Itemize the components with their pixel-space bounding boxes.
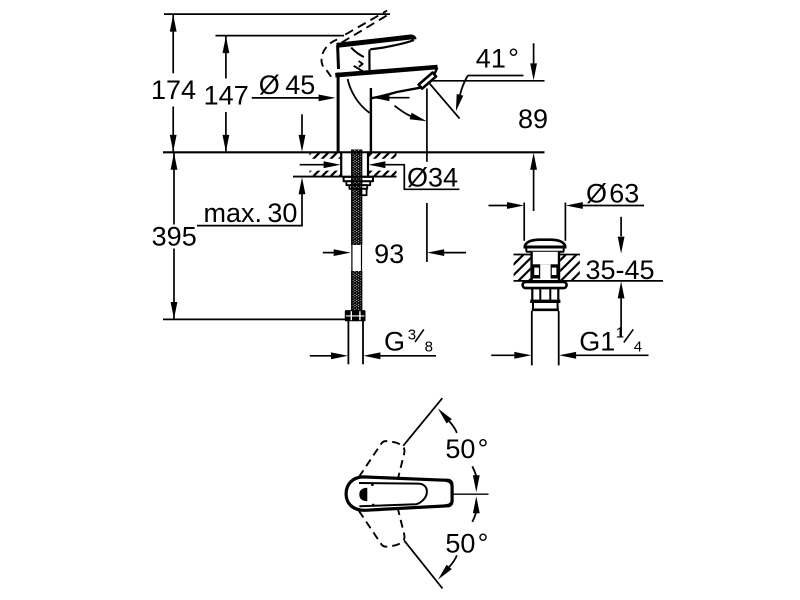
dim d45 left line xyxy=(252,97,320,99)
handle rotated down dashed xyxy=(359,509,405,546)
dim G38 right tail xyxy=(380,355,436,357)
lever top edge xyxy=(337,37,415,45)
41deg leader arc right xyxy=(460,76,468,96)
svg-text:89: 89 xyxy=(518,104,548,134)
dim d34 right arrow xyxy=(368,161,385,168)
threaded shank and hose upper segment xyxy=(351,150,353,246)
dim 147 top extension line xyxy=(216,35,345,37)
dim d63 ext line right xyxy=(564,203,566,241)
dim 93 left arrow xyxy=(334,249,351,256)
washer xyxy=(344,177,373,181)
dim d63 left line xyxy=(489,205,510,207)
dim d63 left arrow xyxy=(507,202,524,209)
dim 174 vertical line xyxy=(172,14,174,73)
dim 3545 upper line xyxy=(620,217,622,236)
spout underside xyxy=(371,88,421,99)
dim d63 right arrow xyxy=(566,202,583,209)
dim 174 arrow down xyxy=(170,135,177,152)
dim d34 right tail and leader xyxy=(385,165,459,190)
dim 93 left line xyxy=(323,252,335,254)
waste dome cap xyxy=(525,240,565,247)
handle paddle top view xyxy=(346,477,452,510)
89 reference line at aerator level xyxy=(432,80,545,82)
dim d45 left arrow xyxy=(319,95,336,102)
drain counter bottom line xyxy=(514,280,664,282)
dim 395 arrow down xyxy=(171,302,178,319)
dim 147 arrow down xyxy=(223,135,230,152)
G38 connector cylinder xyxy=(347,320,349,364)
handle logo crescent xyxy=(360,488,367,501)
svg-text:395: 395 xyxy=(152,222,197,252)
drain counter top line xyxy=(514,254,532,256)
waste tailpipe xyxy=(531,311,533,365)
dim d45 right tail xyxy=(389,97,410,99)
handle rotated up dashed xyxy=(359,441,405,478)
lever back edge xyxy=(336,45,340,69)
raised lever dashed back xyxy=(321,40,337,80)
dim G114 right arrow xyxy=(559,352,576,359)
svg-text:41 °: 41 ° xyxy=(476,43,519,73)
dim max30 arrow down at deck top xyxy=(301,114,303,135)
dim G38 left line xyxy=(310,355,333,357)
upper 50 arc to diagonal xyxy=(438,409,452,424)
svg-text:174: 174 xyxy=(151,75,196,105)
dim d34 left line xyxy=(300,164,325,166)
waste flange xyxy=(523,282,567,288)
mounting sleeve xyxy=(341,153,368,175)
dim 395 arrow up xyxy=(171,153,178,170)
cartridge dome upper curve xyxy=(351,48,364,57)
raised lever dashed chevron xyxy=(359,61,363,67)
svg-text:Ø 45: Ø 45 xyxy=(259,70,315,100)
dim 89 lower line xyxy=(533,170,535,212)
spout nose edge xyxy=(434,68,437,76)
handle dot upper xyxy=(371,483,374,486)
dim 174 arrow up xyxy=(170,15,177,32)
dim 395 vertical line xyxy=(173,153,175,225)
dim 89 arrow down xyxy=(530,63,537,80)
dim G114 right tail xyxy=(576,354,649,356)
svg-text:50 °: 50 ° xyxy=(445,434,488,464)
waste nut xyxy=(531,288,533,300)
dim 93 right arrow xyxy=(427,249,444,256)
spout top edge xyxy=(335,67,437,75)
step 2 xyxy=(349,185,367,189)
waste lip xyxy=(532,303,534,309)
svg-text:147: 147 xyxy=(204,81,249,111)
svg-text:35-45: 35-45 xyxy=(586,255,655,285)
dim 93 right tail xyxy=(444,252,466,254)
waste window xyxy=(532,264,559,278)
svg-text:93: 93 xyxy=(374,239,404,269)
faucet body right edge xyxy=(370,88,372,152)
lower 50 arc to diagonal xyxy=(438,565,452,580)
step 1 xyxy=(346,181,370,185)
dim 89 arrow up xyxy=(530,153,537,170)
hose break gap edges xyxy=(351,245,353,271)
handle paddle inner contour xyxy=(359,483,427,506)
handle dot lower xyxy=(372,504,375,507)
41deg diagonal from aerator xyxy=(428,82,460,119)
faucet body left edge xyxy=(337,73,340,153)
waste cap band xyxy=(525,247,527,252)
dim d34 left arrow xyxy=(324,161,341,168)
dim G38 left arrow xyxy=(331,352,348,359)
upper 50 arc to centerline xyxy=(472,466,476,476)
hose end reference line xyxy=(163,318,365,320)
handle axis centerline xyxy=(423,493,489,495)
dim d63 ext line left xyxy=(523,203,525,241)
lever neck front xyxy=(368,50,371,72)
hose end fitting xyxy=(346,311,365,320)
lower 50 arc to centerline xyxy=(472,512,476,522)
svg-text:8: 8 xyxy=(425,339,433,356)
aerator extension vertical xyxy=(426,89,428,162)
dim 3545 arrow up xyxy=(618,281,625,298)
dim max30 arrow up at deck bottom xyxy=(299,177,306,194)
step 3 tab xyxy=(360,189,367,195)
svg-text:4: 4 xyxy=(634,339,642,356)
41deg leader arc left b xyxy=(395,106,411,116)
dim G114 left arrow xyxy=(514,352,531,359)
dim max30 underline xyxy=(197,225,303,227)
svg-text:G: G xyxy=(384,327,405,357)
mounting deck top line xyxy=(163,151,545,153)
lever underside xyxy=(370,40,414,49)
dim 174 top extension line xyxy=(164,13,390,15)
aerator xyxy=(419,73,437,89)
dim 89 upper line xyxy=(533,43,535,64)
dim d63 right tail xyxy=(582,205,644,207)
lower 50 diagonal xyxy=(404,541,442,589)
raised lever dashed bottom edge xyxy=(342,14,390,43)
svg-text:max. 30: max. 30 xyxy=(204,198,298,228)
mounting deck bottom line xyxy=(293,176,397,178)
dim G114 left line xyxy=(491,354,516,356)
svg-text:Ø34: Ø34 xyxy=(407,163,458,193)
waste neck xyxy=(532,252,559,282)
hose lower segment xyxy=(351,271,353,311)
svg-text:G1: G1 xyxy=(579,327,615,357)
dim 3545 arrow down xyxy=(618,237,625,254)
dim G38 right arrow xyxy=(363,352,380,359)
41deg underline xyxy=(468,75,524,77)
dim 147 arrow up xyxy=(223,36,230,53)
dim 3545 lower line xyxy=(620,298,622,337)
svg-text:Ø 63: Ø 63 xyxy=(586,178,639,208)
handle neck top view xyxy=(423,480,452,506)
41deg leader arc left a xyxy=(348,79,370,113)
dim 147 vertical line xyxy=(225,36,227,79)
dim d45 right arrow xyxy=(372,94,389,101)
svg-text:1: 1 xyxy=(616,325,624,342)
svg-text:50 °: 50 ° xyxy=(445,529,488,559)
upper 50 diagonal xyxy=(403,398,442,446)
raised lever dashed top edge xyxy=(345,11,387,35)
cartridge dome lower curve xyxy=(354,66,367,73)
